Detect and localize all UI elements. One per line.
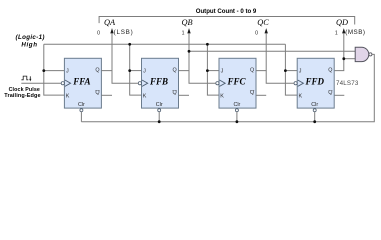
svg-text:K: K xyxy=(66,94,70,100)
svg-text:K: K xyxy=(220,94,224,100)
wire FFC clr drop xyxy=(236,112,238,122)
clock pulse arrow xyxy=(29,76,31,79)
svg-text:(MSB): (MSB) xyxy=(345,29,365,36)
svg-text:J: J xyxy=(66,69,69,75)
wire FFA clr drop xyxy=(80,112,82,122)
wire QB riser xyxy=(179,33,190,70)
svg-text:J: J xyxy=(143,69,146,75)
svg-text:Clr: Clr xyxy=(311,102,318,108)
junction clr FFC xyxy=(236,120,239,123)
svg-text:Q: Q xyxy=(250,90,254,96)
svg-text:Q: Q xyxy=(172,68,176,74)
wire FFD JK branch xyxy=(285,44,297,95)
wire QA to FFB clock xyxy=(112,71,138,84)
flip-flop FFA body xyxy=(64,58,101,108)
FFA clock triangle xyxy=(65,80,71,86)
svg-text:QC: QC xyxy=(257,18,269,27)
FFC clock triangle xyxy=(220,80,226,86)
svg-text:FFC: FFC xyxy=(226,77,246,87)
wire FFD clr drop xyxy=(314,112,316,122)
FFB clock bubble xyxy=(138,82,141,85)
junction rail FFC xyxy=(206,43,209,46)
flip-flop FFC body xyxy=(219,58,256,108)
svg-text:Clr: Clr xyxy=(233,102,240,108)
svg-text:0: 0 xyxy=(97,30,100,36)
svg-text:J: J xyxy=(299,69,302,75)
FFD clock triangle xyxy=(298,80,304,86)
svg-text:FFB: FFB xyxy=(149,77,168,87)
junction FFD J xyxy=(284,69,287,72)
arrow QC xyxy=(265,28,268,33)
FFC clock bubble xyxy=(216,82,219,85)
svg-text:Q: Q xyxy=(95,68,99,74)
svg-text:Q: Q xyxy=(328,90,332,96)
svg-text:QA: QA xyxy=(104,18,116,27)
wire QB to NAND input xyxy=(189,50,355,52)
svg-text:FFD: FFD xyxy=(304,77,324,87)
FFD clr bubble xyxy=(313,109,316,112)
wire FFD J xyxy=(285,70,297,72)
svg-text:High: High xyxy=(21,41,37,48)
wire FFB J xyxy=(130,70,142,72)
svg-text:1: 1 xyxy=(182,30,185,36)
junction FFB J xyxy=(128,69,131,72)
svg-text:Q: Q xyxy=(328,68,332,74)
svg-text:Trailing-Edge: Trailing-Edge xyxy=(4,93,40,99)
FFD clock bubble xyxy=(294,82,297,85)
wire FFA J xyxy=(44,70,65,72)
junction QD nand xyxy=(342,57,345,60)
flip-flop FFB body xyxy=(142,58,179,108)
wire QC to FFD clock xyxy=(266,71,294,84)
wire FFC JK branch xyxy=(207,44,219,95)
svg-text:1: 1 xyxy=(335,30,338,36)
nand output bubble xyxy=(369,53,372,56)
junction clr FFD xyxy=(313,120,316,123)
svg-text:Clock Pulse: Clock Pulse xyxy=(9,87,40,93)
wire QC riser xyxy=(256,33,266,70)
wire nand output to clear rail xyxy=(81,54,374,121)
FFA clock bubble xyxy=(61,82,64,85)
arrow QA xyxy=(110,28,113,33)
wire QD riser xyxy=(335,33,344,70)
wire QD tap to NAND input xyxy=(344,58,356,60)
junction clr FFB xyxy=(158,120,161,123)
svg-text:0: 0 xyxy=(255,30,258,36)
FFC clr bubble xyxy=(235,109,238,112)
svg-text:Clr: Clr xyxy=(156,102,163,108)
svg-text:(LSB): (LSB) xyxy=(114,29,134,36)
junction FFC J xyxy=(206,69,209,72)
svg-text:FFA: FFA xyxy=(72,77,90,87)
svg-text:J: J xyxy=(221,69,224,75)
wire QB to FFC clock xyxy=(189,71,216,84)
wire FFB clr drop xyxy=(158,112,160,122)
wire FFB JK branch xyxy=(130,44,142,95)
arrow QD xyxy=(342,28,345,33)
svg-text:(Logic-1): (Logic-1) xyxy=(16,34,45,41)
wire FFA JK branch xyxy=(44,44,65,95)
svg-text:Output Count - 0 to 9: Output Count - 0 to 9 xyxy=(196,8,257,15)
wire clock input xyxy=(21,82,61,84)
clock pulse symbol xyxy=(21,76,28,80)
svg-text:K: K xyxy=(143,94,147,100)
svg-text:Q: Q xyxy=(250,68,254,74)
arrow QB xyxy=(187,28,190,33)
svg-text:Q: Q xyxy=(172,90,176,96)
svg-text:QD: QD xyxy=(336,18,348,27)
wire QA riser xyxy=(101,33,112,70)
stub FFB Qbar xyxy=(179,94,190,96)
svg-text:QB: QB xyxy=(181,18,192,27)
svg-text:Q: Q xyxy=(95,90,99,96)
junction rail FFB xyxy=(128,43,131,46)
stub FFA Qbar xyxy=(101,94,112,96)
stub FFD Qbar xyxy=(335,94,345,96)
FFA clr bubble xyxy=(80,109,83,112)
junction QB nand xyxy=(188,50,191,53)
svg-text:K: K xyxy=(299,94,303,100)
svg-text:Clr: Clr xyxy=(78,102,85,108)
flip-flop FFD body xyxy=(297,58,334,108)
nand gate U1 xyxy=(355,47,369,61)
wire logic-1 rail xyxy=(44,43,286,45)
stub FFC Qbar xyxy=(256,94,266,96)
FFB clock triangle xyxy=(142,80,148,86)
junction FFA J xyxy=(42,69,45,72)
output bracket xyxy=(99,17,355,25)
wire FFC J xyxy=(207,70,219,72)
FFB clr bubble xyxy=(158,109,161,112)
svg-text:74LS73: 74LS73 xyxy=(336,80,359,87)
